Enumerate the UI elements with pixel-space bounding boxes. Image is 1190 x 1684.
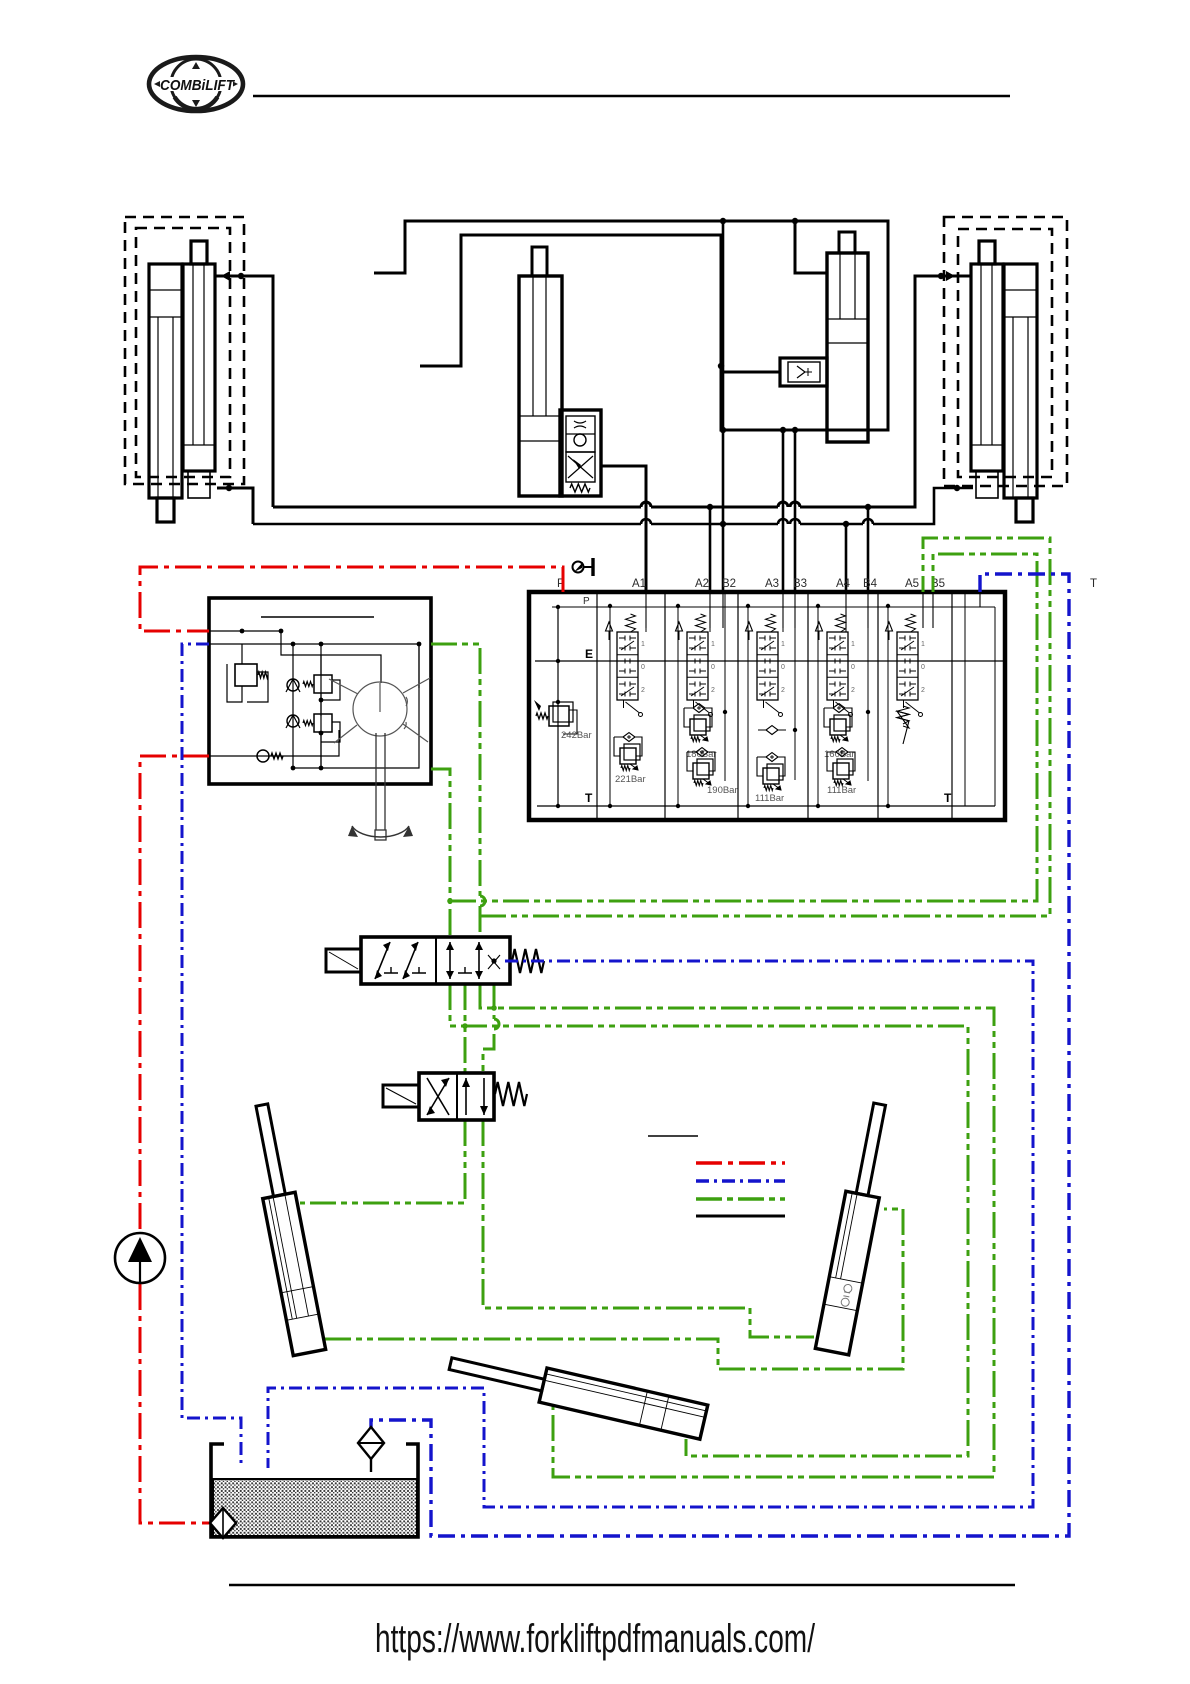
cylinder C4 rod (up) — [839, 232, 855, 253]
green line G6 SV1 to bottom cylinder rod side — [450, 984, 968, 1456]
wire C4 valve to node at x721 — [721, 371, 780, 374]
lowering control valve V3 on C3 — [560, 410, 601, 496]
svg-text:A4: A4 — [836, 578, 851, 590]
port relief valve 221Bar (S1) — [614, 733, 646, 786]
wire V3 to valve port A1 — [601, 466, 646, 592]
svg-text:A2: A2 — [695, 578, 709, 590]
svg-text:1: 1 — [851, 641, 855, 648]
legend black static line — [696, 1215, 785, 1218]
spool section S5 (A5 B5) — [886, 604, 926, 808]
svg-text:180Bar: 180Bar — [686, 749, 717, 760]
anti-cavitation check with spring — [257, 750, 283, 762]
lift cylinder C5 rod (up) — [979, 241, 995, 264]
port relief valve 190Bar (S2) — [687, 748, 738, 797]
red line pump to tank strainer — [140, 1284, 210, 1523]
svg-text:P: P — [583, 596, 590, 607]
left tilt cylinder body — [263, 1192, 326, 1355]
svg-text:0: 0 — [711, 664, 715, 671]
svg-text:2: 2 — [781, 687, 785, 694]
wire C4 rod port — [795, 221, 827, 273]
svg-text:221Bar: 221Bar — [615, 774, 646, 785]
solenoid valve SV2 (tilt cut-off) — [383, 1073, 494, 1120]
port relief valve 111Bar (S4) — [827, 748, 856, 797]
svg-text:0: 0 — [781, 664, 785, 671]
valve drop B2 — [722, 221, 725, 592]
steering column shaft — [375, 733, 386, 840]
svg-text:B2: B2 — [722, 578, 736, 590]
left mast dashed boundary outer — [125, 217, 244, 484]
right mast dashed boundary outer — [944, 217, 1067, 486]
svg-text:2: 2 — [641, 687, 645, 694]
lift cylinder C6 body (right pair right) — [1004, 264, 1037, 498]
wire loop top (y221-x888-y430-x721-y235-x461) — [374, 221, 888, 430]
header rule — [253, 95, 1010, 97]
tank fluid (hatched) — [213, 1479, 417, 1536]
valve drop A4 — [845, 524, 848, 592]
bottom tilt cylinder rod — [449, 1358, 544, 1391]
free-lift cylinder C3 body (center) — [519, 276, 562, 496]
left tilt cylinder rod — [256, 1104, 285, 1197]
lift cylinder C5 body (right pair left) — [971, 264, 1003, 498]
bottom tilt cylinder body — [539, 1368, 708, 1439]
wire left pair bottom port to bus2 — [217, 485, 253, 524]
right tilt cylinder rod — [856, 1103, 885, 1196]
free-lift cylinder C3 rod (up) — [532, 247, 547, 276]
green line G5 SV2 to right tilt cylinder bottom port — [483, 1120, 814, 1337]
svg-text:1: 1 — [641, 641, 645, 648]
valve block port labels — [557, 578, 1097, 805]
blue return line B1 steering block to tank — [182, 644, 241, 1468]
legend red pressure line — [696, 1161, 785, 1164]
svg-text:COMBiLIFT: COMBiLIFT — [160, 78, 235, 94]
svg-text:242Bar: 242Bar — [561, 730, 592, 741]
spool section S2 (A2 B2) — [676, 594, 728, 808]
steering unit (orbitrol) circle — [329, 678, 430, 743]
valve block section dividers — [597, 594, 952, 818]
lift cylinder C6 rod (down) — [1016, 498, 1033, 522]
red suction line steering block to pump — [140, 756, 209, 1233]
svg-text:A1: A1 — [632, 578, 646, 590]
svg-text:B3: B3 — [793, 578, 807, 590]
svg-text:1: 1 — [711, 641, 715, 648]
lift cylinder C1 rod (down) — [157, 498, 174, 522]
spool section S1 (A1) — [606, 594, 647, 808]
main relief valve 242Bar — [534, 605, 592, 808]
port relief valve 111Bar (S3) — [755, 753, 785, 805]
port relief valve 180Bar (S2) — [684, 704, 717, 761]
svg-text:2: 2 — [711, 687, 715, 694]
spool section S3 (A3 B3) — [746, 594, 798, 808]
valve drop B4 — [867, 507, 870, 592]
port relief valve 160Bar (S4) — [824, 704, 855, 761]
valve block E line — [535, 660, 1003, 662]
legend blue return line — [696, 1179, 785, 1182]
svg-text:T: T — [1090, 578, 1097, 590]
lift cylinder C1 body (left pair left) — [149, 264, 182, 498]
check valve lower — [287, 715, 299, 727]
svg-text:111Bar: 111Bar — [755, 793, 784, 804]
svg-text:1: 1 — [781, 641, 785, 648]
spool section S4 (A4 B4) — [816, 594, 871, 808]
svg-text:2: 2 — [851, 687, 855, 694]
svg-text:https://www.forkliftpdfmanuals: https://www.forkliftpdfmanuals.com/ — [375, 1617, 816, 1661]
svg-text:1: 1 — [921, 641, 925, 648]
Combilift logo — [149, 57, 243, 111]
svg-text:190Bar: 190Bar — [707, 785, 738, 796]
left mast dashed boundary inner — [136, 228, 230, 477]
red pressure line P to steering block — [140, 567, 563, 631]
suction strainer — [210, 1508, 236, 1538]
shock relief valve upper — [303, 655, 340, 716]
pressure test point — [573, 558, 594, 576]
spring of SV1 — [512, 949, 544, 973]
green line G3 SV2 to left tilt cylinder top port — [300, 1120, 465, 1203]
reservoir tank walls — [211, 1444, 418, 1537]
svg-text:T: T — [585, 791, 593, 805]
svg-text:E: E — [585, 647, 593, 661]
steering block internal piping — [209, 631, 419, 768]
green line G4 SV1 to bottom cylinder piston side — [480, 984, 994, 1477]
wire left pair top port to bus1 riser — [215, 271, 273, 507]
bus2 wire (lower manifold supply) — [253, 485, 973, 524]
valve block internal port stubs — [646, 594, 980, 628]
lift cylinder C2 rod (up) — [191, 241, 207, 264]
svg-text:0: 0 — [851, 664, 855, 671]
valve block T bus — [537, 594, 995, 806]
right mast dashed boundary inner — [958, 229, 1052, 477]
bus1 wire (upper manifold supply) — [273, 271, 971, 507]
main control valve block frame — [529, 592, 1005, 820]
svg-text:111Bar: 111Bar — [827, 785, 856, 796]
svg-text:T: T — [944, 791, 952, 805]
tilt-lock cylinder C4 body (center right) — [827, 253, 868, 442]
lift cylinder C2 body (left pair right) — [183, 264, 215, 498]
green line G2 pump port to B5 and valve SV1 — [431, 554, 1037, 937]
svg-text:0: 0 — [641, 664, 645, 671]
steering block title line — [261, 616, 374, 618]
check valve block V4 on C4 — [780, 358, 827, 386]
svg-text:0: 0 — [921, 664, 925, 671]
legend green work line — [696, 1197, 785, 1200]
valve drop A3 — [782, 430, 785, 592]
right tilt cylinder body — [815, 1191, 879, 1355]
steering rotation arrow — [348, 826, 413, 837]
valve drop B3 — [794, 430, 797, 592]
solenoid valve SV1 (tilt selector) — [326, 937, 510, 984]
spring of SV2 — [495, 1082, 527, 1106]
valve drop A2 — [709, 507, 712, 592]
shock relief valve lower — [303, 714, 340, 768]
svg-text:B4: B4 — [863, 578, 878, 590]
hydraulic pump symbol — [115, 1233, 165, 1283]
svg-text:A3: A3 — [765, 578, 779, 590]
blue return line B3 valve block T to filter — [371, 574, 1069, 1536]
footer rule — [229, 1584, 1015, 1586]
svg-text:2: 2 — [921, 687, 925, 694]
green line G7 left tilt bottom to right tilt top — [325, 1209, 903, 1369]
return filter — [358, 1427, 384, 1472]
check valve upper — [287, 679, 299, 691]
green line G1 pump port to A5 and valve SV1 — [431, 538, 1050, 937]
steering relief valve left — [227, 644, 268, 702]
blue return line B2 SV1 spring side to tank — [268, 961, 1033, 1507]
steering priority block frame — [209, 598, 431, 784]
valve block internal pilot bus — [552, 606, 995, 608]
legend title line — [648, 1135, 698, 1137]
svg-text:A5: A5 — [905, 578, 919, 590]
